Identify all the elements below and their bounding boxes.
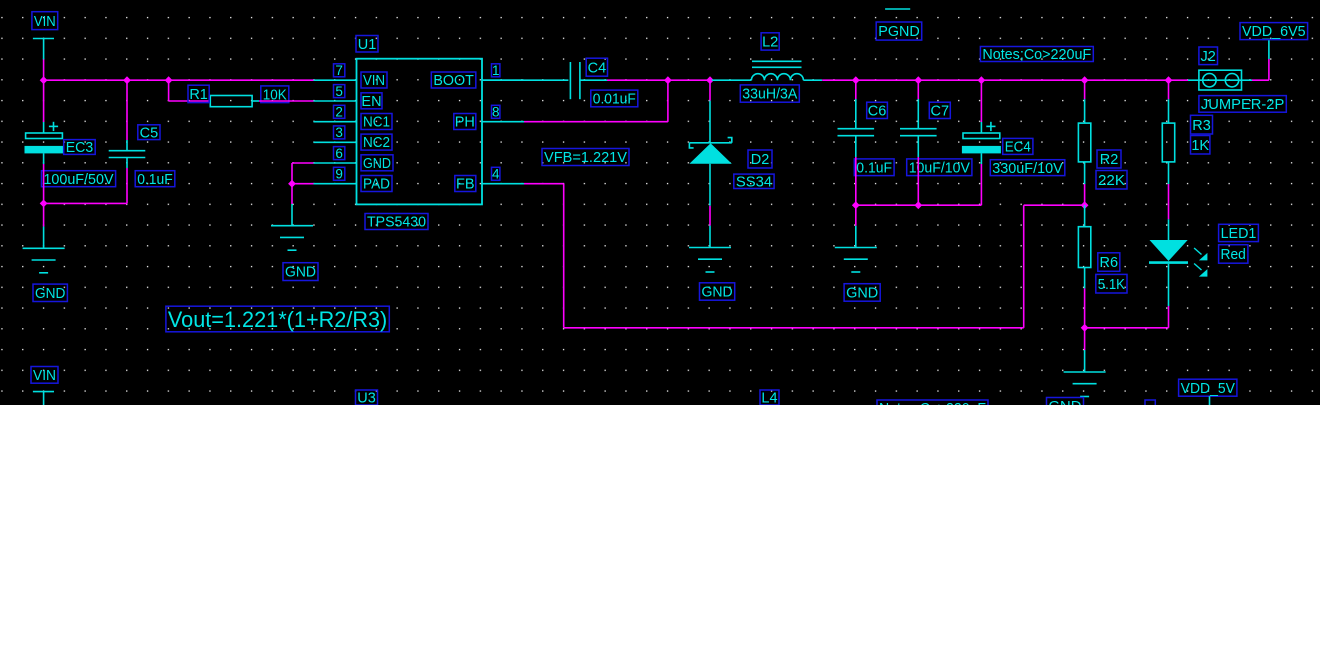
pin number 5 [334, 84, 345, 99]
note Vout formula [166, 306, 389, 332]
power port label VDD_5V [1179, 379, 1237, 397]
svg-text:6: 6 [335, 146, 343, 161]
svg-text:C6: C6 [868, 104, 887, 120]
pin name EN [361, 93, 382, 110]
diode D2 SS34 [689, 138, 731, 164]
junction BOOT cap / PH node [664, 76, 672, 84]
pin number 3 [334, 125, 345, 140]
connector J2 JUMPER-2P [1199, 70, 1242, 90]
svg-text:VFB=1.221V: VFB=1.221V [544, 150, 627, 166]
svg-text:7: 7 [335, 63, 343, 78]
wire R6 gnd stem [1084, 328, 1086, 372]
resistor R1 body [210, 96, 252, 107]
svg-text:3: 3 [335, 125, 343, 140]
label 100uF/50V [42, 171, 116, 188]
svg-text:1K: 1K [1191, 138, 1209, 154]
wire EC3 gnd stem [43, 203, 45, 248]
pin 3 (NC2) line [314, 141, 357, 143]
svg-text:22K: 22K [1098, 173, 1125, 189]
pin name PH [454, 114, 476, 131]
wire LED bottom [1168, 264, 1170, 328]
junction C7 bottom [914, 201, 922, 209]
svg-text:EC4: EC4 [1005, 140, 1031, 156]
label 0.1uF (C6) [854, 159, 894, 177]
label 330uF/10V [990, 160, 1065, 177]
label R1 [188, 85, 209, 103]
power port label PGND [876, 22, 922, 40]
svg-text:VIN: VIN [363, 73, 385, 89]
label 5.1K [1096, 274, 1127, 293]
svg-text:GND: GND [285, 265, 316, 281]
pin 2 (NC1) line [314, 121, 357, 123]
svg-text:2: 2 [335, 105, 343, 120]
svg-text:GND: GND [35, 286, 65, 302]
power port label VDD_6V5 [1240, 23, 1308, 41]
svg-text:JUMPER-2P: JUMPER-2P [1201, 97, 1284, 113]
label C6 [867, 102, 888, 119]
label 0.1uF (C5) [135, 171, 175, 188]
junction rail / EC4 [978, 76, 986, 84]
wire R1 left [169, 100, 211, 102]
svg-text:0.01uF: 0.01uF [593, 92, 636, 108]
wire C7 bottom [917, 136, 919, 206]
label R2 [1097, 150, 1121, 168]
wire R2 bottom [1084, 162, 1086, 205]
power port VDD_6V5 bar+stem [1262, 39, 1281, 59]
svg-text:Notes;Co>220uF: Notes;Co>220uF [879, 401, 986, 405]
junction C6 bottom [852, 201, 860, 209]
wire R3 top [1168, 80, 1170, 123]
label LED1 [1219, 224, 1259, 242]
pin name VIN [361, 72, 387, 89]
wire J2 to VDD_6V5 [1242, 59, 1269, 80]
ground below C6 [835, 248, 877, 273]
svg-text:SS34: SS34 [736, 174, 772, 190]
power port PGND bar [885, 8, 910, 10]
junction rail / C6 [852, 76, 860, 84]
inductor L2 [712, 61, 822, 80]
power port VIN bottom bar+stem [33, 392, 54, 405]
svg-text:EC3: EC3 [66, 140, 94, 156]
svg-text:D2: D2 [751, 152, 770, 168]
label C4 [586, 58, 607, 76]
capacitor EC3 [25, 122, 64, 154]
wire R6 top [1084, 205, 1086, 227]
capacitor C5 [109, 151, 146, 158]
svg-text:Red: Red [1221, 247, 1246, 263]
pin number 2 [334, 105, 345, 120]
ground below EC3 [23, 248, 65, 272]
wire EC4 top [980, 80, 982, 133]
pin 8 (PH) line [482, 121, 524, 123]
svg-text:100uF/50V: 100uF/50V [43, 172, 113, 188]
power port VDD_5V stem [1209, 396, 1211, 405]
label R6 [1098, 253, 1120, 271]
junction D2 / L2 node [706, 76, 714, 84]
note Notes;Co>220uF (bottom, clipped) [877, 400, 988, 417]
svg-text:NC2: NC2 [363, 135, 390, 151]
label Red [1219, 245, 1248, 264]
label box fragment (bottom) [1145, 400, 1155, 412]
wire R3 to LED [1168, 162, 1170, 240]
wire EC3 top [43, 80, 45, 133]
junction rail / C7 [914, 76, 922, 84]
wire C5 to EC3 bottom link [44, 202, 127, 204]
wire output rail [822, 79, 1188, 81]
junction GND/PAD node [288, 180, 296, 188]
wire PAD pin9 [292, 183, 314, 185]
power port label VIN (top-left) [32, 12, 58, 30]
wire cap bottom rail [856, 204, 982, 206]
junction VIN rail / C5 [123, 76, 131, 84]
svg-text:8: 8 [492, 105, 500, 120]
wire PH pin8 [524, 121, 668, 123]
svg-text:R6: R6 [1100, 255, 1119, 271]
wire EC4 bottom [980, 153, 982, 205]
svg-text:TPS5430: TPS5430 [367, 215, 426, 231]
label L2 [761, 33, 779, 51]
svg-text:VDD_5V: VDD_5V [1181, 381, 1236, 397]
svg-text:U1: U1 [358, 37, 377, 53]
wire R1 right to EN [252, 100, 313, 102]
pin number 9 [334, 167, 345, 182]
label SS34 [734, 174, 774, 190]
wire EC3 bottom [43, 153, 45, 203]
svg-text:GND: GND [702, 285, 733, 301]
wire R2 top [1084, 80, 1086, 123]
svg-text:0.1uF: 0.1uF [856, 160, 892, 176]
capacitor C6 [838, 129, 875, 136]
svg-text:R1: R1 [189, 87, 208, 103]
label C7 [929, 102, 950, 119]
pin number 6 [334, 146, 345, 161]
label D2 [748, 150, 772, 168]
svg-text:R3: R3 [1192, 118, 1211, 134]
svg-text:VDD_6V5: VDD_6V5 [1242, 24, 1306, 40]
ground label GND (C6) [844, 284, 880, 302]
label 0.01uF [591, 90, 638, 108]
svg-text:GND: GND [846, 286, 878, 302]
svg-text:NC1: NC1 [363, 115, 390, 131]
wire C5 bottom [126, 158, 128, 204]
pin 1 (BOOT) line [482, 79, 524, 81]
junction R2/R6/FB node [1081, 201, 1089, 209]
svg-text:9: 9 [335, 167, 343, 182]
ground label GND (EC3) [33, 284, 67, 302]
wire D2 top [709, 80, 711, 143]
wire R1 drop [168, 80, 170, 101]
svg-text:R2: R2 [1100, 152, 1119, 168]
pin number 8 [492, 105, 500, 120]
pin 6 (GND) line [314, 162, 357, 164]
svg-text:L2: L2 [762, 35, 778, 51]
power port label VIN (bottom) [31, 367, 58, 385]
svg-text:0.1uF: 0.1uF [137, 172, 173, 188]
label JUMPER-2P [1199, 96, 1286, 113]
label VFB=1.221V [542, 149, 629, 167]
ground below R6 [1064, 372, 1106, 397]
svg-text:L4: L4 [761, 391, 777, 405]
ground label GND (R6, clipped) [1047, 398, 1084, 415]
label 33uH/3A [740, 85, 799, 103]
junction EC3/C5 gnd node [40, 200, 48, 208]
power port VIN bar+stem [33, 39, 54, 60]
wire C6 bottom [855, 136, 857, 206]
pin name BOOT [431, 72, 476, 89]
svg-text:U3: U3 [357, 391, 376, 405]
wire PH node to L2 [668, 79, 712, 81]
label 10uF/10V [907, 159, 972, 177]
wire main VIN rail [44, 79, 314, 81]
label R3 [1191, 115, 1213, 134]
svg-text:PGND: PGND [878, 24, 920, 40]
wire C6 top [855, 80, 857, 129]
svg-text:LED1: LED1 [1221, 226, 1257, 242]
junction rail / R2 [1081, 76, 1089, 84]
svg-text:C4: C4 [588, 60, 607, 76]
wire bottom rail to LED [1085, 327, 1169, 329]
op-amp/IC U1 TPS5430 body [357, 59, 483, 205]
pin 7 (VIN) line [314, 79, 357, 81]
pin 4 (FB) line [482, 183, 524, 185]
label 1K [1191, 136, 1210, 155]
wire VIN stem [43, 59, 45, 80]
ground label GND (D2) [700, 283, 735, 301]
pin name NC2 [361, 134, 392, 151]
label U3 (clipped) [356, 390, 378, 407]
svg-text:BOOT: BOOT [433, 73, 474, 89]
svg-text:VIN: VIN [33, 368, 56, 384]
resistor R2 body [1078, 123, 1090, 162]
wire GND pin6 [292, 163, 314, 184]
svg-text:FB: FB [456, 177, 475, 193]
resistor R3 body [1162, 123, 1174, 162]
svg-text:C7: C7 [931, 104, 950, 120]
svg-text:PAD: PAD [363, 177, 390, 193]
wire R6 bottom [1084, 268, 1086, 328]
junction rail / R3 [1165, 76, 1173, 84]
wire U1 gnd stem [291, 184, 293, 226]
pin 5 (EN) line [314, 100, 357, 102]
pin number 4 [492, 167, 500, 182]
wire FB pin4 out [524, 183, 564, 185]
junction VIN rail / EC3 [40, 76, 48, 84]
capacitor C7 [900, 129, 937, 136]
wire FB riser [1023, 205, 1025, 328]
svg-text:GND: GND [363, 156, 391, 172]
wire C6 gnd stem [855, 205, 857, 247]
label L4 (clipped) [760, 390, 779, 407]
capacitor C4 plates [570, 62, 580, 99]
wire C5 top [126, 80, 128, 151]
wire rail to J2 [1188, 79, 1199, 81]
svg-text:PH: PH [455, 115, 475, 131]
svg-text:330uF/10V: 330uF/10V [992, 161, 1063, 177]
label EC3 [64, 140, 95, 157]
wire FB drop [563, 184, 565, 328]
ground label GND (U1) [283, 263, 318, 281]
wire C4 right [580, 79, 668, 81]
svg-text:5.1K: 5.1K [1098, 277, 1125, 293]
pin name FB [455, 176, 476, 193]
svg-text:GND: GND [1049, 399, 1082, 405]
wire C7 top [917, 80, 919, 129]
svg-text:4: 4 [492, 167, 500, 182]
label C5 [138, 125, 160, 142]
svg-text:Notes;Co>220uF: Notes;Co>220uF [982, 47, 1091, 63]
ground below U1 [271, 226, 313, 251]
pin number 7 [334, 63, 345, 78]
capacitor EC4 [962, 122, 1001, 154]
pin name PAD [361, 176, 392, 193]
wire PH riser [667, 80, 669, 122]
pin name GND [361, 155, 393, 172]
pin number 1 [492, 63, 500, 78]
label J2 [1199, 47, 1218, 65]
wire FB to R2 node [1024, 204, 1085, 206]
label TPS5430 [365, 214, 428, 231]
pin 9 (PAD) line [314, 183, 357, 185]
LED LED1 (Red) [1149, 240, 1207, 277]
ground below D2 [689, 248, 731, 273]
label 22K [1096, 171, 1127, 190]
svg-text:5: 5 [335, 84, 343, 99]
label EC4 [1003, 138, 1033, 155]
svg-text:1: 1 [492, 63, 500, 78]
svg-text:Vout=1.221*(1+R2/R3): Vout=1.221*(1+R2/R3) [168, 307, 387, 332]
note Notes;Co>220uF [980, 47, 1093, 64]
svg-text:33uH/3A: 33uH/3A [742, 87, 797, 103]
wire FB bottom rail [564, 327, 1024, 329]
svg-text:J2: J2 [1201, 49, 1216, 65]
label 10K [261, 86, 289, 104]
svg-text:VIN: VIN [34, 14, 56, 30]
junction VIN rail / R1 [165, 76, 173, 84]
svg-text:C5: C5 [140, 125, 159, 141]
label U1 [356, 36, 378, 53]
wire BOOT to C4 [482, 79, 568, 81]
junction R6 bottom / gnd rail [1081, 324, 1089, 332]
resistor R6 body [1078, 227, 1090, 268]
pin name NC1 [361, 114, 392, 131]
wire D2 bottom [709, 164, 711, 248]
svg-text:EN: EN [361, 94, 381, 110]
